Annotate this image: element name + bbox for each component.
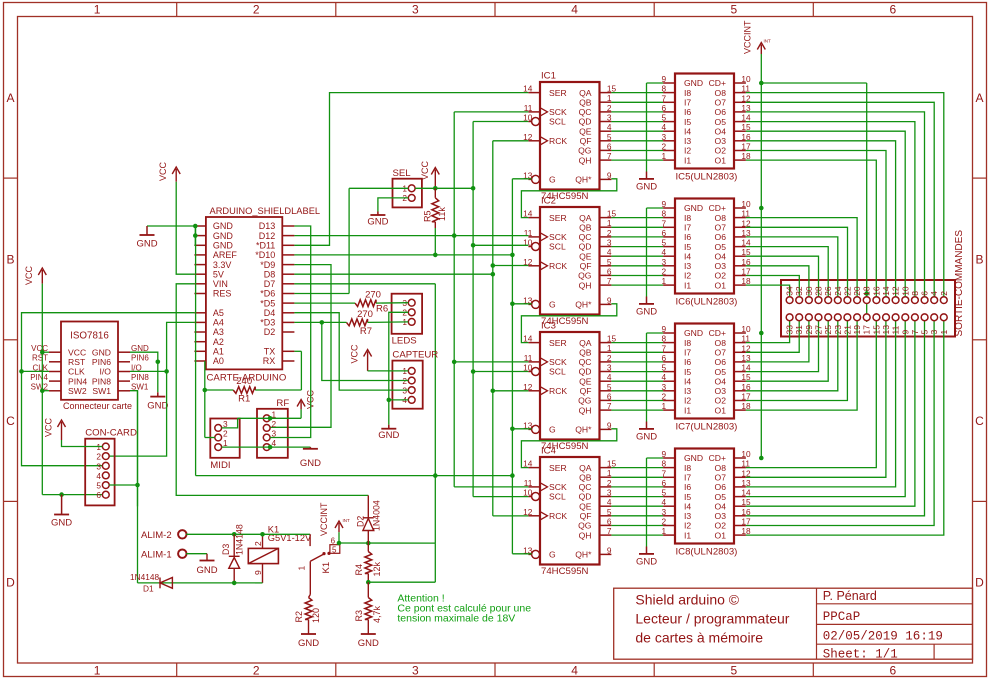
wire CAPTEUR pin4 to ground rail — [389, 399, 409, 401]
svg-text:QH*: QH* — [575, 425, 592, 435]
svg-text:*D3: *D3 — [260, 318, 275, 328]
svg-text:IC2: IC2 — [541, 196, 556, 207]
IC IC4 74HC595N box — [540, 457, 600, 565]
wire VCC node to SCL rail — [435, 187, 473, 189]
svg-text:RX: RX — [263, 356, 276, 366]
svg-text:*D5: *D5 — [260, 298, 275, 308]
svg-text:QA: QA — [579, 338, 592, 348]
svg-text:GND: GND — [300, 458, 321, 469]
svg-text:TX: TX — [264, 347, 276, 357]
svg-text:IC1: IC1 — [541, 71, 556, 82]
svg-text:CAPTEUR: CAPTEUR — [392, 350, 438, 361]
svg-text:10: 10 — [741, 199, 751, 209]
svg-text:I4: I4 — [684, 376, 691, 386]
relay coil pin 9 — [262, 564, 264, 583]
svg-text:A: A — [975, 91, 983, 105]
svg-text:5: 5 — [607, 507, 612, 517]
svg-text:GND: GND — [636, 307, 657, 318]
svg-text:4: 4 — [607, 372, 612, 382]
svg-text:I8: I8 — [684, 338, 691, 348]
junction SCK branches — [452, 233, 457, 238]
wire relay pin9 corner — [255, 582, 263, 584]
svg-text:O2: O2 — [715, 521, 727, 531]
IC6 left pin stubs — [663, 207, 675, 209]
wire D3 pin to R7 with CAPTEUR branch — [294, 321, 346, 323]
wire VCC to CON-CARD pin1 — [62, 440, 103, 447]
MIDI pin circles — [215, 425, 222, 432]
svg-text:R1: R1 — [238, 394, 250, 405]
svg-text:O8: O8 — [715, 213, 727, 223]
wire net G from D10 — [294, 254, 512, 256]
svg-text:VCC: VCC — [420, 160, 430, 180]
IC1 right pin stubs — [600, 92, 612, 94]
wire VCCINT node to R4 — [339, 542, 435, 544]
svg-text:GND: GND — [636, 182, 657, 193]
svg-text:A4: A4 — [213, 318, 224, 328]
ground symbol right of RF — [309, 447, 311, 449]
junction VCCINT switch node — [337, 541, 342, 546]
svg-text:4: 4 — [96, 471, 101, 481]
junction at RF pin1 — [268, 416, 273, 421]
svg-text:2: 2 — [607, 478, 612, 488]
IC6 right pin stubs — [734, 207, 746, 209]
svg-text:13: 13 — [881, 325, 891, 335]
wire R5 bottom to D10 net — [434, 222, 436, 228]
svg-text:MIDI: MIDI — [210, 460, 230, 471]
svg-text:2: 2 — [607, 353, 612, 363]
svg-text:QF: QF — [580, 261, 592, 271]
ground symbol below IC7 pin 9 — [647, 332, 664, 334]
wire net SCL vertical — [472, 122, 474, 497]
junction D3 bottom — [232, 581, 237, 586]
svg-text:O3: O3 — [715, 386, 727, 396]
svg-text:tension maximale de 18V: tension maximale de 18V — [397, 613, 515, 625]
resistor R4 12k vertical — [365, 552, 372, 574]
svg-text:VCCINT: VCCINT — [743, 20, 753, 54]
IC3 left pin stubs — [528, 342, 540, 344]
wire D13 down to RF pin3 — [270, 226, 311, 438]
IC3 clock input triangles — [540, 358, 548, 366]
wire net SER from D11 to IC1 SER — [294, 93, 528, 246]
IC4 inverter bubbles on SCL and G — [532, 493, 540, 501]
svg-text:1: 1 — [94, 664, 101, 678]
IC IC8 ULN2803 box — [675, 449, 734, 544]
svg-text:I1: I1 — [684, 405, 691, 415]
svg-text:1: 1 — [607, 343, 612, 353]
svg-text:QD: QD — [579, 242, 592, 252]
power symbol VCC above CON-CARD — [61, 422, 63, 440]
svg-text:O3: O3 — [715, 261, 727, 271]
svg-text:I8: I8 — [684, 463, 691, 473]
IC4 right pin stubs — [600, 467, 612, 469]
svg-text:2: 2 — [939, 291, 949, 296]
svg-text:12: 12 — [891, 286, 901, 296]
svg-text:SCL: SCL — [549, 492, 566, 502]
connector SEL box — [393, 179, 422, 208]
wire VCCINT to connector pin 18 — [761, 82, 866, 84]
svg-text:GND: GND — [636, 432, 657, 443]
svg-text:3.3V: 3.3V — [213, 260, 232, 270]
svg-text:3: 3 — [412, 664, 419, 678]
diode D3 1N4148 vertical — [233, 534, 235, 556]
wire GND rail down to G enable net — [195, 226, 197, 476]
resistor R2 120 vertical — [305, 598, 312, 620]
connector RF box — [257, 409, 288, 458]
svg-text:GND: GND — [367, 217, 388, 228]
title block outline — [614, 588, 973, 659]
svg-text:270: 270 — [357, 309, 373, 320]
svg-text:2: 2 — [253, 3, 260, 17]
svg-text:5: 5 — [96, 481, 101, 491]
junction G rail — [510, 302, 515, 307]
svg-text:QE: QE — [579, 501, 592, 511]
svg-text:D2: D2 — [264, 327, 276, 337]
svg-text:SEL: SEL — [393, 168, 412, 179]
svg-text:PIN6: PIN6 — [131, 354, 149, 363]
svg-text:I2: I2 — [684, 396, 691, 406]
svg-text:D8: D8 — [264, 269, 276, 279]
svg-text:O3: O3 — [715, 136, 727, 146]
wire net G enable vertical — [511, 179, 513, 554]
wires IC8 outputs O8-O1 to connector pins 15-1 bottom row — [746, 321, 876, 468]
wire R7 to LEDS pin1 — [368, 321, 409, 324]
wire R6 to LEDS pin3 — [376, 302, 408, 304]
svg-text:I2: I2 — [684, 521, 691, 531]
svg-text:VCC: VCC — [24, 265, 34, 285]
frame column tick marks — [176, 3, 178, 17]
svg-text:QE: QE — [579, 251, 592, 261]
svg-text:I5: I5 — [684, 242, 691, 252]
svg-text:GND: GND — [684, 328, 703, 338]
svg-text:GND: GND — [51, 518, 72, 529]
svg-text:VCC: VCC — [158, 161, 168, 181]
frame row tick marks — [4, 177, 18, 179]
svg-text:6: 6 — [96, 490, 101, 500]
wire MIDI pin1 RF pin4 ground — [222, 446, 311, 448]
wire Arduino GND pins junction — [194, 226, 196, 245]
svg-text:4: 4 — [607, 497, 612, 507]
svg-text:D7: D7 — [264, 279, 276, 289]
junction SCL branches — [471, 186, 476, 191]
svg-text:24: 24 — [833, 286, 843, 296]
svg-text:2: 2 — [607, 228, 612, 238]
svg-text:O8: O8 — [715, 463, 727, 473]
relay coil pin 2 — [262, 534, 264, 548]
wire VCC arrow rail down to CON-CARD pin6 — [41, 284, 43, 495]
svg-text:O4: O4 — [715, 251, 727, 261]
junction D3 top — [232, 532, 237, 537]
svg-text:1N4004: 1N4004 — [372, 500, 382, 531]
svg-text:Connecteur carte: Connecteur carte — [63, 401, 132, 411]
svg-text:INT: INT — [764, 39, 772, 44]
svg-text:D12: D12 — [259, 231, 276, 241]
wire SW1 rail down to CON-CARD pin5 — [137, 391, 139, 507]
svg-text:de cartes à mémoire: de cartes à mémoire — [635, 630, 763, 646]
svg-text:4: 4 — [929, 291, 939, 296]
svg-text:19: 19 — [852, 325, 862, 335]
power symbol VCC right of RF — [300, 402, 302, 410]
switch K1 lever — [310, 553, 325, 561]
svg-text:CD+: CD+ — [709, 203, 726, 213]
svg-text:IC6(ULN2803): IC6(ULN2803) — [676, 297, 738, 308]
wire I/O stub to A4 rail — [130, 370, 167, 372]
svg-text:7: 7 — [607, 276, 612, 286]
ISO7816 left pin stubs — [49, 351, 61, 353]
svg-text:R6: R6 — [376, 304, 388, 315]
ground symbol below IC5 pin 9 — [647, 82, 664, 84]
IC2 left pin stubs — [528, 217, 540, 219]
wires IC6 outputs O8-O1 to connector pins 20-34 — [746, 218, 857, 297]
svg-text:K1: K1 — [321, 562, 332, 574]
svg-text:A1: A1 — [213, 347, 224, 357]
svg-text:4: 4 — [571, 3, 578, 17]
svg-text:SCK: SCK — [549, 107, 567, 117]
connector LEDS box — [392, 294, 423, 334]
svg-text:33: 33 — [785, 325, 795, 335]
wire A0 net into MIDI pin2 — [205, 437, 215, 439]
svg-text:*D11: *D11 — [256, 241, 275, 251]
svg-text:INT: INT — [343, 518, 351, 523]
CON-CARD pin circles — [102, 443, 109, 450]
IC2 inverter bubbles on SCL and G — [532, 243, 540, 251]
svg-text:4: 4 — [607, 247, 612, 257]
junction CON-CARD pin6 gnd — [59, 492, 64, 497]
svg-text:1: 1 — [607, 468, 612, 478]
svg-text:GND: GND — [213, 231, 234, 241]
svg-text:B: B — [6, 252, 14, 266]
svg-text:6: 6 — [607, 141, 612, 151]
power symbol VCC above R5 — [434, 170, 436, 189]
svg-text:10: 10 — [523, 238, 533, 248]
svg-text:QG: QG — [578, 521, 592, 531]
svg-text:O4: O4 — [715, 376, 727, 386]
switch K1 common contact pin — [309, 534, 311, 546]
svg-text:QE: QE — [579, 376, 592, 386]
svg-text:2: 2 — [607, 103, 612, 113]
junction VCC node — [433, 186, 438, 191]
svg-text:Lecteur / programmateur: Lecteur / programmateur — [635, 611, 789, 627]
svg-text:D: D — [6, 576, 15, 590]
svg-text:23: 23 — [833, 325, 843, 335]
svg-text:21: 21 — [842, 325, 852, 335]
IC5 right pin stubs — [734, 82, 746, 84]
diode D2 1N4004 vertical — [367, 495, 369, 517]
ground symbol below R3 — [361, 633, 376, 635]
svg-text:QH: QH — [579, 155, 592, 165]
wire R4 bottom to R5 rail — [368, 581, 435, 583]
svg-text:IC7(ULN2803): IC7(ULN2803) — [676, 422, 738, 433]
resistor R1 240 horizontal — [233, 387, 255, 394]
svg-text:A5: A5 — [213, 308, 224, 318]
IC8 right pin stubs — [734, 457, 746, 459]
wire net SCK vertical branch — [453, 112, 455, 487]
svg-text:GND: GND — [684, 78, 703, 88]
svg-text:I4: I4 — [684, 126, 691, 136]
svg-text:QG: QG — [578, 396, 592, 406]
wire ALIM-1 to ground — [186, 553, 207, 555]
svg-text:1: 1 — [94, 3, 101, 17]
svg-text:QA: QA — [579, 463, 592, 473]
junction LEDS ground at CAPTEUR pin4 — [387, 398, 392, 403]
connector SORTIE-COMMANDES box — [781, 280, 955, 337]
svg-text:R5: R5 — [423, 210, 433, 222]
junction I/O on A4 rail — [164, 369, 169, 374]
svg-text:10: 10 — [741, 324, 751, 334]
terminal circle ALIM-2 — [178, 530, 186, 538]
wire net A5 to CLK and CON-CARD pin3 — [22, 313, 195, 466]
svg-text:CON-CARD: CON-CARD — [85, 428, 137, 439]
wire ALIM-2 net to switch common contact — [263, 533, 311, 535]
connector CAPTEUR box — [392, 361, 422, 409]
junction D3 net branch to CAPTEUR — [320, 320, 325, 325]
svg-text:1N4148: 1N4148 — [130, 572, 159, 582]
svg-text:14: 14 — [881, 286, 891, 296]
wire net from D9 down to RF pin2 — [270, 265, 331, 428]
junction A0 R1 — [203, 388, 208, 393]
svg-text:9: 9 — [607, 170, 612, 180]
svg-text:RCK: RCK — [549, 386, 567, 396]
svg-text:D1: D1 — [143, 584, 154, 594]
svg-text:O3: O3 — [715, 511, 727, 521]
svg-text:6: 6 — [607, 391, 612, 401]
wire ALIM-2 to relay coil — [186, 533, 262, 535]
svg-text:G: G — [549, 175, 556, 185]
wire net from D8 to RCK rail — [294, 273, 492, 275]
svg-text:PIN4: PIN4 — [30, 373, 48, 382]
wire LEDS pin2 to ground rail — [389, 312, 409, 424]
svg-text:74HC595N: 74HC595N — [541, 566, 589, 577]
IC1 left pin stubs — [528, 92, 540, 94]
wires IC7 outputs O8-O1 to connector pins 33-19 bottom row — [746, 321, 790, 343]
svg-text:PIN8: PIN8 — [92, 376, 111, 386]
svg-text:QB: QB — [579, 472, 592, 482]
svg-text:2: 2 — [223, 429, 228, 439]
wire VCC to RF pin1 and MIDI pin3 — [238, 417, 302, 419]
wires G pins to enable rail — [512, 178, 531, 180]
IC IC3 74HC595N box — [540, 332, 600, 440]
svg-text:SER: SER — [549, 338, 567, 348]
svg-text:QB: QB — [579, 347, 592, 357]
junction CLK on A5 rail — [19, 369, 24, 374]
svg-text:R2: R2 — [294, 611, 304, 623]
svg-text:O2: O2 — [715, 146, 727, 156]
power symbol VCC above arduino — [175, 169, 177, 182]
wire VCC down to 5V pin — [176, 182, 194, 275]
svg-text:120: 120 — [311, 608, 321, 623]
svg-text:I6: I6 — [684, 107, 691, 117]
svg-text:Sheet: 1/1: Sheet: 1/1 — [823, 648, 898, 662]
svg-text:I4: I4 — [684, 251, 691, 261]
svg-text:CLK: CLK — [68, 367, 85, 377]
svg-text:GND: GND — [92, 347, 111, 357]
svg-text:G: G — [549, 300, 556, 310]
svg-text:I1: I1 — [684, 155, 691, 165]
wire CON-CARD pin5 to switch rail — [109, 484, 137, 486]
svg-text:IC4: IC4 — [541, 446, 557, 457]
IC8 left pin stubs — [663, 457, 675, 459]
svg-text:RCK: RCK — [549, 511, 567, 521]
svg-text:O1: O1 — [715, 405, 727, 415]
svg-text:7: 7 — [607, 526, 612, 536]
IC3 right pin stubs — [600, 342, 612, 344]
svg-text:SCK: SCK — [549, 357, 567, 367]
power symbol VCCINT top — [760, 45, 762, 55]
junction RCK branches — [491, 263, 496, 268]
svg-text:GND: GND — [684, 453, 703, 463]
svg-text:RES: RES — [213, 289, 232, 299]
svg-text:B: B — [975, 252, 983, 266]
IC2 right pin stubs — [600, 217, 612, 219]
svg-text:QC: QC — [579, 482, 592, 492]
svg-text:SCL: SCL — [549, 242, 566, 252]
svg-text:O7: O7 — [715, 473, 727, 483]
wire GND to symbol top left — [147, 225, 195, 227]
wire A0 down to R1 and MIDI pin2 — [204, 361, 206, 438]
svg-text:3: 3 — [607, 363, 612, 373]
IC7 right pin stubs — [734, 332, 746, 334]
svg-text:I7: I7 — [684, 473, 691, 483]
svg-text:I3: I3 — [684, 136, 691, 146]
svg-text:SW1: SW1 — [92, 386, 111, 396]
power symbol VCC at CAPTEUR pin1 — [367, 352, 369, 371]
CARTE-ARDUINO right pin stubs — [282, 225, 294, 227]
svg-text:C: C — [6, 414, 15, 428]
svg-text:QH: QH — [579, 280, 592, 290]
wire VIN down to diode D2 — [176, 284, 368, 496]
junction VCCINT at connector — [864, 291, 869, 296]
svg-text:P. Pénard: P. Pénard — [823, 589, 877, 603]
wire net RCK vertical — [492, 141, 494, 516]
svg-text:VCC: VCC — [44, 417, 54, 437]
svg-text:27: 27 — [814, 325, 824, 335]
svg-text:QD: QD — [579, 117, 592, 127]
svg-text:9: 9 — [607, 545, 612, 555]
svg-text:O8: O8 — [715, 338, 727, 348]
svg-text:A: A — [6, 91, 14, 105]
svg-text:I3: I3 — [684, 511, 691, 521]
resistor R3 4.7k vertical — [365, 598, 372, 620]
svg-text:SCK: SCK — [549, 232, 567, 242]
wire R1 right to TX and RF pin2 — [255, 389, 301, 391]
SEL pin circles — [408, 185, 415, 192]
svg-text:7: 7 — [607, 151, 612, 161]
svg-text:I/O: I/O — [100, 367, 112, 377]
ground symbol below SEL — [377, 212, 379, 216]
svg-text:QF: QF — [580, 386, 592, 396]
svg-text:9: 9 — [253, 570, 263, 575]
svg-text:6: 6 — [890, 3, 897, 17]
svg-text:QC: QC — [579, 232, 592, 242]
svg-text:I3: I3 — [684, 261, 691, 271]
svg-text:RCK: RCK — [549, 136, 567, 146]
svg-text:PIN4: PIN4 — [68, 376, 87, 386]
svg-text:RCK: RCK — [549, 261, 567, 271]
svg-text:10: 10 — [741, 74, 751, 84]
svg-text:SER: SER — [549, 88, 567, 98]
IC IC6 ULN2803 box — [675, 199, 734, 294]
ground symbol below CON-CARD — [61, 495, 63, 515]
svg-text:QD: QD — [579, 492, 592, 502]
svg-text:2: 2 — [96, 452, 101, 462]
power symbol VCCINT at switch — [338, 523, 340, 532]
power symbol VCC left column — [41, 270, 43, 284]
svg-text:11: 11 — [524, 228, 533, 238]
svg-text:VCCINT: VCCINT — [319, 502, 329, 536]
svg-text:QA: QA — [579, 213, 592, 223]
svg-text:10: 10 — [900, 286, 910, 296]
svg-text:15: 15 — [871, 325, 881, 335]
svg-text:ALIM-2: ALIM-2 — [141, 530, 172, 541]
